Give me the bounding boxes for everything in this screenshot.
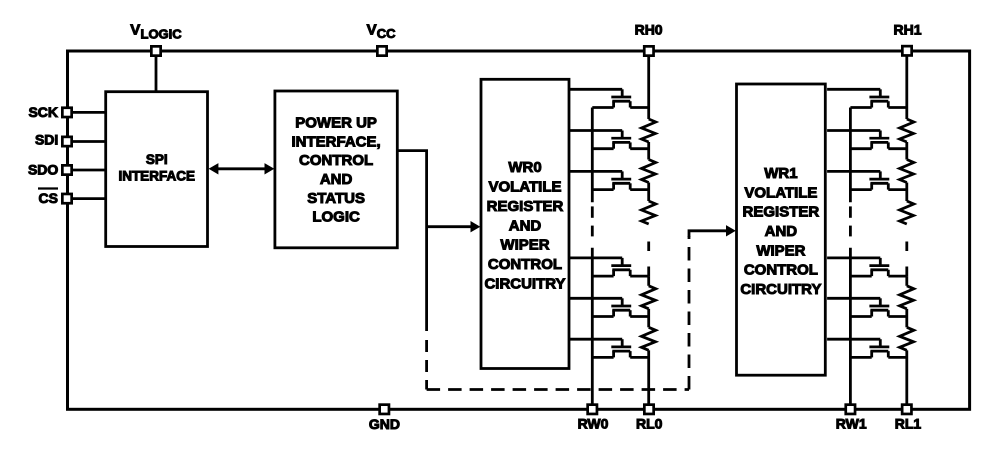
label WR0 VOLATILE REGISTER AND WIPER CONTROL CIRCUITRY [484, 159, 565, 292]
svg-text:VOLATILE: VOLATILE [488, 179, 561, 196]
dashed wire down from node [425, 332, 428, 390]
pin RL0 [644, 405, 653, 414]
wire RW1 wiper bus [849, 108, 852, 410]
pin GND [380, 405, 389, 414]
svg-text:CIRCUITRY: CIRCUITRY [484, 275, 565, 292]
label VCC [367, 21, 397, 41]
svg-text:V: V [367, 21, 377, 38]
dashed wire bottom run to WR1 [427, 388, 689, 391]
wire RH1 terminal string [905, 51, 908, 409]
svg-text:WIPER: WIPER [756, 242, 805, 259]
svg-text:INTERFACE: INTERFACE [118, 169, 195, 184]
svg-text:VOLATILE: VOLATILE [744, 184, 817, 201]
svg-text:SDO: SDO [28, 162, 58, 178]
resistor R05 [642, 327, 656, 350]
dashed continuation of resistor string RH0 [647, 242, 650, 277]
svg-text:INTERFACE,: INTERFACE, [292, 133, 381, 150]
arrowhead into WR1 register [726, 225, 736, 236]
wire POWER UP output to WR0 (solid section) [397, 151, 426, 331]
svg-text:RW1: RW1 [836, 416, 867, 432]
svg-text:WIPER: WIPER [500, 237, 549, 254]
wire RW0 wiper bus [591, 108, 594, 410]
svg-text:CONTROL: CONTROL [744, 262, 818, 279]
pin RH0 [644, 46, 653, 55]
wire arrow into WR0 register [427, 225, 472, 228]
pin SDO [62, 165, 71, 174]
svg-text:REGISTER: REGISTER [487, 198, 564, 215]
transistor switch Q11 [827, 89, 907, 107]
svg-text:CC: CC [377, 26, 396, 41]
svg-text:SPI: SPI [146, 152, 168, 167]
transistor switch Q03 [569, 171, 649, 189]
transistor switch Q04 [569, 258, 649, 276]
transistor switch Q12 [827, 131, 907, 149]
overline of CS [38, 187, 58, 189]
dashed wire rising to WR1 [688, 236, 691, 390]
dashed continuation of resistor string RH1 [905, 242, 908, 277]
pin CS [62, 194, 71, 203]
transistor switch Q02 [569, 131, 649, 149]
svg-text:STATUS: STATUS [307, 190, 365, 207]
label POWER UP INTERFACE CONTROL AND STATUS LOGIC [292, 114, 381, 225]
wire SDI to SPI INTERFACE [67, 140, 106, 143]
wire corner into WR1 register [689, 231, 728, 237]
label VLOGIC [130, 22, 182, 42]
svg-text:RH1: RH1 [893, 22, 921, 38]
pin RW1 [846, 405, 855, 414]
resistor R14 [900, 286, 914, 309]
transistor switch Q13 [827, 171, 907, 189]
wire VLOGIC to SPI INTERFACE [155, 51, 158, 92]
svg-text:POWER UP: POWER UP [295, 114, 377, 131]
dashed continuation of wiper bus RW0 [591, 206, 594, 236]
wire SDO to SPI INTERFACE [67, 169, 106, 172]
svg-text:SCK: SCK [28, 104, 58, 120]
svg-text:CS: CS [39, 190, 58, 206]
dashed continuation of wiper bus RW1 [849, 206, 852, 236]
wire RH0 terminal string [647, 51, 650, 409]
outer boundary box [68, 51, 970, 409]
resistor R01 [642, 119, 656, 142]
pin RW0 [588, 405, 597, 414]
resistor R11 [900, 119, 914, 142]
svg-text:LOGIC: LOGIC [141, 26, 183, 41]
wire SCK to SPI INTERFACE [67, 111, 106, 114]
svg-text:RL0: RL0 [636, 416, 663, 432]
svg-text:AND: AND [765, 223, 798, 240]
pin VCC [377, 46, 386, 55]
label SPI INTERFACE [118, 152, 195, 184]
resistor R04 [642, 286, 656, 309]
pin RH1 [902, 46, 911, 55]
transistor switch Q14 [827, 258, 907, 276]
svg-text:LOGIC: LOGIC [312, 209, 360, 226]
resistor R02 [642, 160, 656, 183]
arrowhead into WR0 register [471, 221, 481, 232]
resistor R03 [642, 201, 656, 224]
svg-text:CONTROL: CONTROL [488, 256, 562, 273]
svg-text:WR1: WR1 [764, 165, 797, 182]
svg-text:SDI: SDI [35, 132, 58, 148]
svg-text:CIRCUITRY: CIRCUITRY [740, 281, 821, 298]
svg-text:RH0: RH0 [635, 21, 663, 37]
transistor switch Q01 [569, 89, 649, 107]
transistor switch Q15 [827, 298, 907, 316]
pin SDI [62, 137, 71, 146]
svg-text:WR0: WR0 [508, 159, 541, 176]
arrowhead into POWER UP block [265, 163, 275, 174]
svg-text:REGISTER: REGISTER [743, 204, 820, 221]
resistor R12 [900, 160, 914, 183]
block WR0 VOLATILE REGISTER AND WIPER CONTROL CIRCUITRY [481, 79, 569, 368]
block WR1 VOLATILE REGISTER AND WIPER CONTROL CIRCUITRY [737, 84, 826, 375]
svg-text:GND: GND [369, 416, 400, 432]
pin VLOGIC [151, 46, 160, 55]
transistor switch Q06 [569, 339, 649, 357]
svg-text:RL1: RL1 [895, 416, 922, 432]
pin RL1 [902, 405, 911, 414]
block POWER UP INTERFACE CONTROL AND STATUS LOGIC [275, 91, 397, 248]
resistor R13 [900, 201, 914, 224]
svg-text:RW0: RW0 [578, 416, 609, 432]
svg-text:CONTROL: CONTROL [299, 152, 373, 169]
transistor switch Q05 [569, 298, 649, 316]
pin SCK [62, 108, 71, 117]
block SPI INTERFACE [106, 92, 208, 247]
resistor R15 [900, 327, 914, 350]
transistor switch Q16 [827, 339, 907, 357]
arrowhead into SPI INTERFACE [209, 163, 219, 174]
wire CS to SPI INTERFACE [67, 197, 106, 200]
label WR1 VOLATILE REGISTER AND WIPER CONTROL CIRCUITRY [740, 165, 821, 298]
svg-text:AND: AND [320, 171, 353, 188]
svg-text:V: V [130, 22, 140, 39]
svg-text:AND: AND [509, 217, 542, 234]
wire SPI to POWER UP bidirectional bus [217, 167, 267, 170]
